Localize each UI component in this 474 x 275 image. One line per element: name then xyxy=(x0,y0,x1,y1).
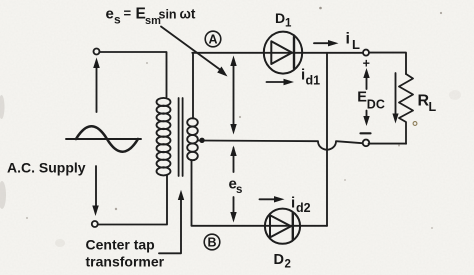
svg-text:1: 1 xyxy=(285,18,292,30)
svg-text:A.C. Supply: A.C. Supply xyxy=(7,159,86,175)
svg-text:s: s xyxy=(236,184,242,196)
svg-text:i: i xyxy=(291,195,295,212)
svg-text:L: L xyxy=(352,37,360,52)
svg-text:DC: DC xyxy=(367,98,385,112)
svg-text:ωt: ωt xyxy=(180,7,196,22)
svg-text:B: B xyxy=(207,236,216,250)
svg-text:A: A xyxy=(208,33,217,47)
svg-text:d2: d2 xyxy=(296,201,311,215)
svg-text:sin: sin xyxy=(159,8,177,22)
svg-text:e: e xyxy=(106,6,114,23)
svg-text:s: s xyxy=(114,13,121,27)
svg-text:=: = xyxy=(124,6,132,21)
svg-text:E: E xyxy=(357,90,367,106)
svg-text:d1: d1 xyxy=(306,74,321,88)
svg-text:2: 2 xyxy=(285,259,291,271)
svg-text:D: D xyxy=(274,252,284,268)
svg-text:D: D xyxy=(275,10,285,26)
svg-text:i: i xyxy=(346,31,350,48)
svg-text:+: + xyxy=(363,57,370,71)
svg-text:transformer: transformer xyxy=(86,254,165,270)
svg-text:Center tap: Center tap xyxy=(86,237,155,253)
svg-text:L: L xyxy=(429,100,437,114)
